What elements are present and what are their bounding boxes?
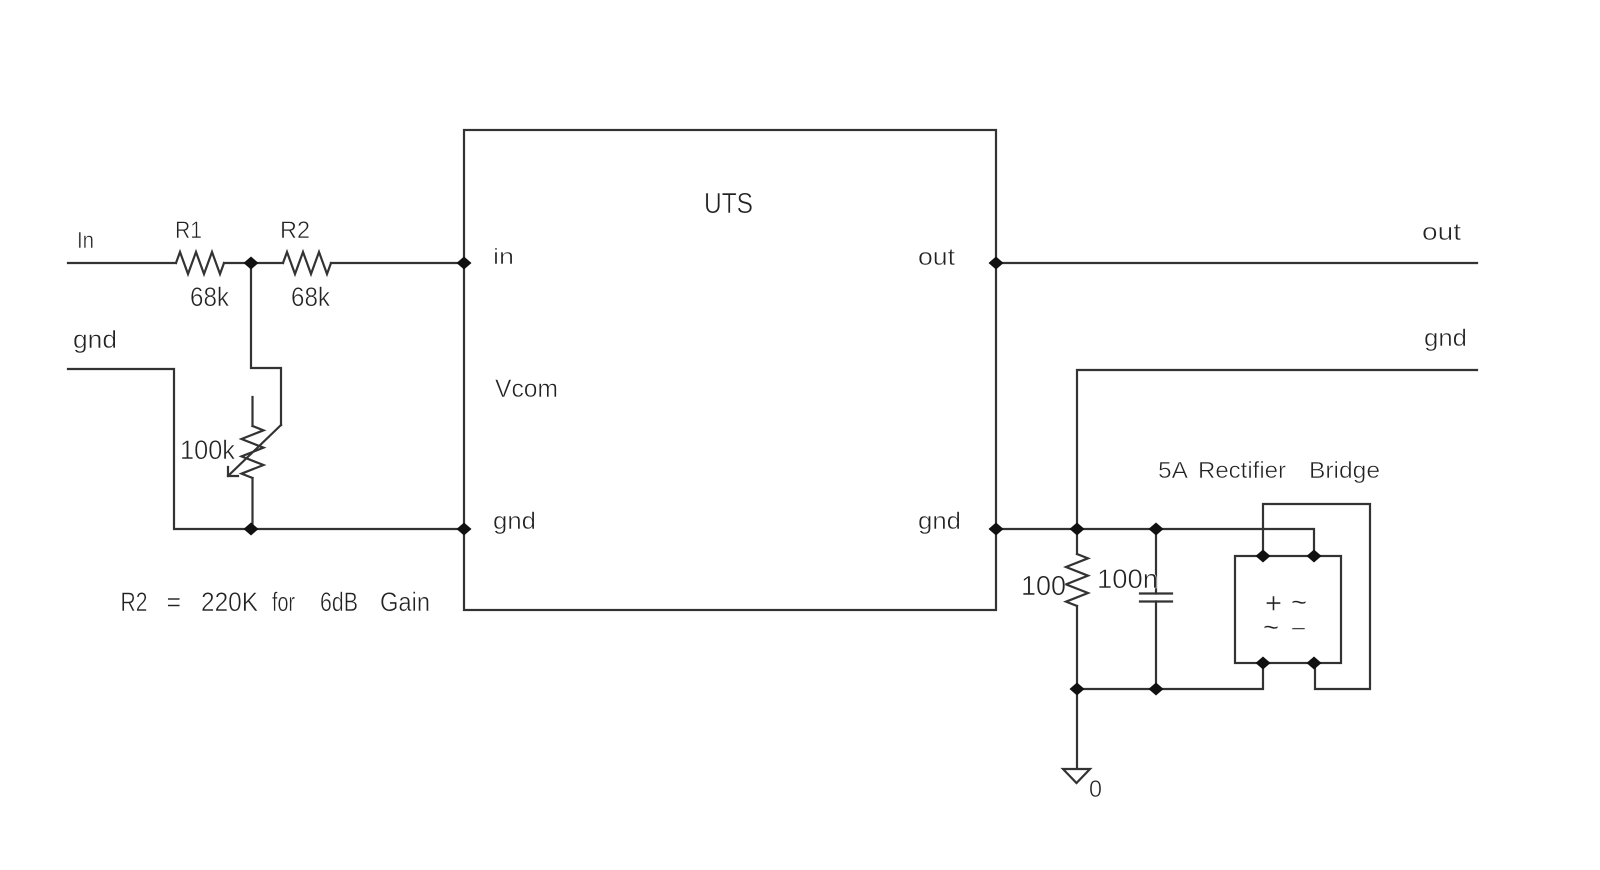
wire: gnd left rail [68,369,464,529]
rectifier bridge BR1 body [1235,556,1341,663]
svg-text:220K: 220K [201,587,258,617]
wire: R2 to UTS in pin [331,262,464,264]
svg-text:gnd: gnd [1424,325,1467,352]
wire: bridge outer loop plus-minus [1263,504,1370,689]
potentiometer top stub lead [251,397,253,426]
resistor 100 top lead [1076,529,1078,554]
wire: ground stem [1076,689,1078,769]
potentiometer 100k resistor body [242,426,264,478]
svg-text:out: out [918,244,955,271]
svg-text:Vcom: Vcom [495,375,558,403]
junction node A [244,257,259,270]
wire: In input lead [68,262,176,264]
capacitor C1 100n plates [1140,594,1172,602]
capacitor C1 bottom lead [1155,602,1157,690]
junction resistor 100 top [1070,523,1085,536]
bridge marking tilde minus [1263,611,1306,644]
svg-text:gnd: gnd [73,326,117,354]
junction capacitor top [1149,523,1164,536]
svg-text:68k: 68k [190,282,229,312]
svg-text:68k: 68k [291,282,330,312]
svg-text:5A: 5A [1158,457,1189,483]
wire: pot bottom lead [251,478,253,529]
svg-text:–: – [1292,614,1306,641]
svg-text:R2: R2 [121,587,148,617]
svg-text:Rectifier: Rectifier [1198,457,1286,483]
title 5A Rectifier Bridge [1158,457,1380,483]
resistor 100 body [1066,554,1088,606]
svg-text:100: 100 [1021,570,1066,601]
resistor 100 bottom lead [1076,606,1078,689]
svg-text:=: = [167,587,182,617]
svg-text:0: 0 [1089,776,1102,803]
wire: gnd right top rail [1077,370,1477,529]
bridge marking plus tilde [1265,586,1307,620]
svg-text:gnd: gnd [493,508,536,535]
wire: bottom rail to bridge AC2 [1077,663,1263,689]
svg-text:6dB: 6dB [320,587,358,617]
wire: node A down to wiper [251,263,281,425]
svg-text:out: out [1422,219,1461,246]
svg-text:for: for [272,587,295,617]
svg-text:Bridge: Bridge [1309,457,1380,483]
junction bridge terminal ac2 [1256,657,1271,670]
junction bridge terminal plus [1256,550,1271,563]
junction UTS gnd left pin [457,523,472,536]
svg-text:R2: R2 [280,217,310,244]
svg-text:100k: 100k [180,435,235,465]
svg-text:Gain: Gain [380,587,430,617]
junction bridge terminal ac1 [1307,550,1322,563]
resistor R2 [283,252,331,274]
svg-text:gnd: gnd [918,508,961,535]
wire: gnd rail to bridge AC input [996,529,1314,556]
svg-text:in: in [493,244,514,269]
ground symbol 0 [1063,769,1090,783]
potentiometer wiper arrow [228,425,281,476]
junction UTS in pin [457,257,472,270]
op-amp block U1 UTS box [464,130,996,610]
junction UTS out pin [989,257,1004,270]
junction resistor 100 bottom [1070,683,1085,696]
svg-text:UTS: UTS [704,188,753,220]
junction UTS gnd right pin [989,523,1004,536]
wire: out [996,262,1477,264]
wire: R1 to node A [224,262,283,264]
svg-text:100n: 100n [1097,564,1158,594]
capacitor C1 top lead [1155,529,1157,594]
svg-text:In: In [77,227,94,253]
resistor R1 [176,252,224,274]
junction capacitor bottom [1149,683,1164,696]
junction bridge terminal minus [1307,657,1322,670]
note R2 = 220K for 6dB Gain [121,587,431,617]
junction pot to gnd rail [244,523,259,536]
svg-text:R1: R1 [175,217,202,244]
svg-text:~: ~ [1263,611,1279,644]
